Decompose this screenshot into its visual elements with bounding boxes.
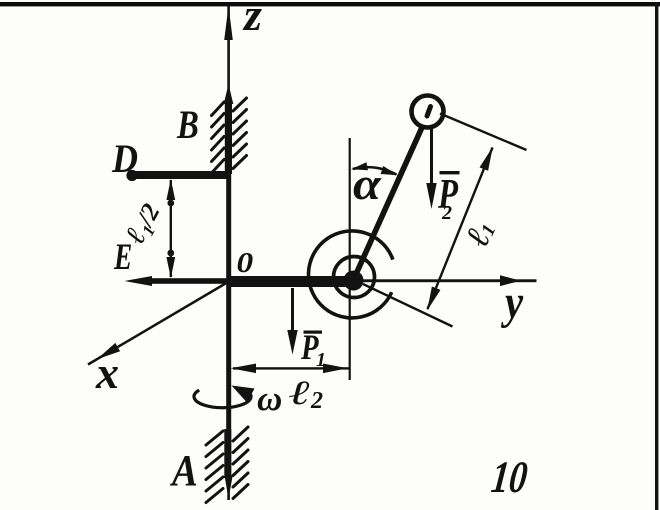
label A — [169, 446, 198, 495]
y axis arrowhead — [500, 275, 521, 286]
svg-text:D: D — [111, 137, 138, 181]
ball center tick — [427, 107, 431, 117]
omega rotation arc — [194, 386, 254, 408]
svg-text:α: α — [353, 159, 383, 209]
svg-text:A: A — [169, 446, 198, 495]
angle alpha arc — [351, 162, 398, 175]
spiral outer arc — [309, 231, 393, 318]
bearing B hatching left — [212, 102, 225, 173]
shaft thick segment bearing B — [225, 100, 232, 174]
svg-text:0: 0 — [237, 246, 254, 278]
label omega — [257, 379, 282, 418]
label E — [113, 237, 132, 278]
dimension line l2 — [231, 364, 350, 374]
svg-text:2: 2 — [441, 202, 452, 224]
shaft segment D to bearing A — [226, 174, 231, 478]
figure number 10 — [489, 452, 530, 502]
svg-text:x: x — [95, 347, 119, 398]
label D — [111, 137, 138, 181]
bearing A thick shaft section — [224, 429, 231, 478]
bar E (horizontal through origin, left part) — [140, 278, 228, 284]
frame top border — [0, 2, 660, 6]
label B — [176, 102, 199, 147]
z axis vertical line — [227, 6, 230, 500]
ball at rod end — [412, 96, 444, 128]
label z — [242, 0, 262, 40]
label alpha — [353, 159, 383, 209]
z axis top arrowhead — [224, 6, 233, 40]
extension line upper (from ball) — [440, 114, 527, 151]
bar D (horizontal rod at D) — [128, 171, 231, 179]
label l1 (rotated) — [459, 215, 502, 252]
label P2 with overbar — [437, 171, 459, 224]
svg-text:E: E — [113, 237, 132, 278]
thin vertical reference line through pivot — [349, 138, 351, 380]
shaft bottom taper arrow — [225, 476, 233, 499]
label x — [95, 347, 119, 398]
x axis line — [88, 282, 228, 365]
force P2 arrow — [426, 126, 436, 209]
crank bar from O to pivot — [228, 276, 358, 287]
bearing A hatching right — [233, 427, 248, 499]
label l1/2 (rotated) — [119, 198, 168, 250]
rod from pivot to ball — [352, 114, 428, 283]
x axis arrowhead — [97, 343, 120, 359]
dimension line l1/2 — [166, 179, 175, 278]
spiral inner circle — [334, 257, 375, 298]
z axis arrowhead above bearing B — [224, 84, 234, 104]
dimension line l1 — [427, 147, 493, 311]
svg-text:B: B — [176, 102, 199, 147]
label y — [500, 275, 523, 329]
label O — [237, 246, 254, 278]
force P1 arrow — [287, 288, 297, 355]
svg-text:z: z — [242, 0, 262, 40]
bearing B hatching right — [233, 98, 247, 169]
bearing A hatching left — [206, 431, 223, 503]
y axis line — [228, 279, 537, 282]
svg-text:ℓ: ℓ — [289, 374, 311, 412]
frame right edge line — [655, 2, 658, 510]
spiral spring pivot: center dot — [344, 271, 364, 291]
svg-text:10: 10 — [489, 452, 530, 502]
label P1 with overbar — [300, 328, 326, 371]
extension line lower (spiral exit, dimension base) — [363, 284, 453, 327]
label l2 — [289, 374, 323, 414]
svg-text:ω: ω — [257, 379, 282, 418]
bar E left arrowhead — [125, 276, 153, 286]
bar D left end dot — [126, 170, 137, 181]
svg-text:2: 2 — [310, 388, 323, 414]
